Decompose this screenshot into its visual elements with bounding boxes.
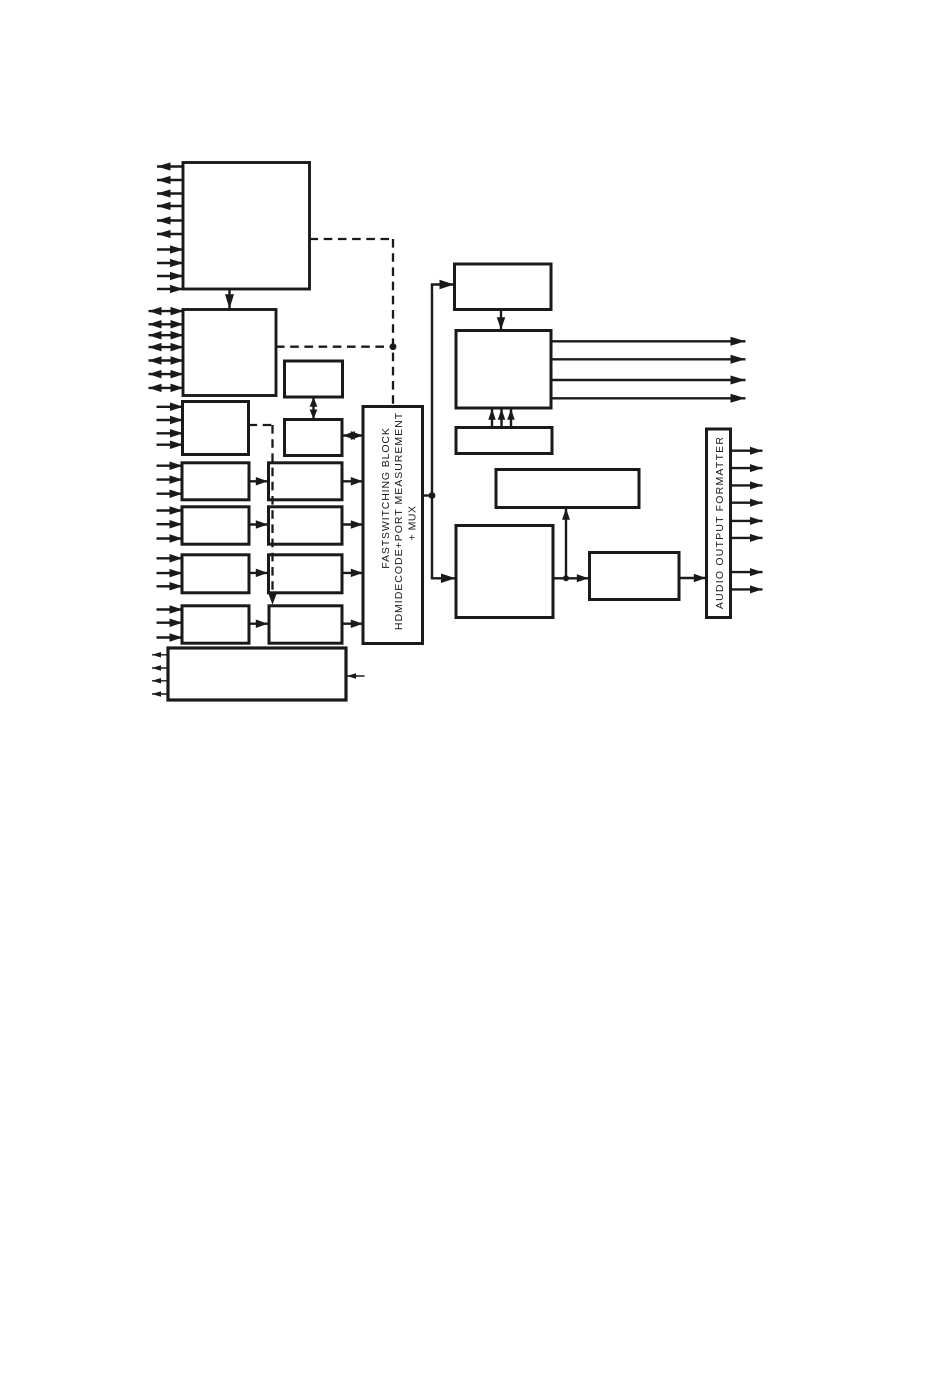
- wire AOF output arrow 5: [731, 517, 763, 525]
- wire B2 bidirectional port arrow 2: [149, 320, 184, 329]
- wire dashed B1 to FS vertical segment: [392, 239, 394, 406]
- wire trunk vertical: [431, 285, 433, 579]
- wire B2 bidirectional port arrow 4: [149, 343, 184, 352]
- wire B4 input port arrow 4: [157, 440, 184, 449]
- wire row5 input port arrow 1: [157, 605, 183, 614]
- wire C to B up arrow 3: [507, 409, 515, 427]
- svg-text:+ MUX: + MUX: [407, 506, 419, 541]
- block B4 control block: [183, 402, 249, 455]
- wire WIDE output small arrow 4: [152, 691, 169, 697]
- wire junction up into D arrow: [562, 508, 570, 578]
- block C small wide block under B: [456, 428, 552, 454]
- wire row5 input port arrow 2: [157, 618, 183, 627]
- block B3a small control block: [285, 361, 343, 397]
- wire B long output arrow 1: [551, 337, 746, 346]
- wire E to F arrow: [553, 574, 589, 582]
- block R4R hdmi receiver row4 right: [269, 555, 343, 593]
- wire row3 input port arrow 1: [157, 506, 183, 515]
- wire row4 to fastswitching block arrow: [342, 569, 363, 578]
- wire dashed B2 branch horizontal: [276, 346, 390, 348]
- wire WIDE output small arrow 2: [152, 665, 169, 671]
- wire AOF output arrow 4: [731, 499, 763, 507]
- wire B1 input port arrow 4 (points right): [157, 285, 184, 293]
- block R2R hdmi receiver row2 right: [269, 463, 343, 500]
- node junction dot on trunk: [429, 492, 436, 499]
- wire B1 output port arrow 5 (points left): [157, 216, 184, 224]
- wire F to AOF arrow: [679, 574, 706, 583]
- wire A to B down arrow: [497, 310, 506, 330]
- block R3R hdmi receiver row3 right: [269, 507, 343, 544]
- wire B3b to fastswitching double arrow: [343, 431, 363, 440]
- wire row4 input port arrow 2: [157, 569, 183, 578]
- block B video output block: [456, 331, 551, 409]
- wire B1 output port arrow 2 (points left): [157, 176, 184, 184]
- block B1 main tuner input block (top-left): [183, 163, 310, 290]
- block D wide block: [496, 470, 639, 508]
- wire row3 input port arrow 2: [157, 520, 183, 529]
- node dashed junction dot: [390, 343, 397, 350]
- wire B long output arrow 2: [551, 355, 746, 364]
- wire WIDE right input small arrow: [347, 673, 365, 679]
- wire row5 left-to-right block arrow: [250, 619, 268, 628]
- wire B long output arrow 3: [551, 376, 746, 385]
- block R4L hdmi input stage row4 left: [182, 555, 249, 593]
- wire row4 input port arrow 3: [157, 582, 183, 591]
- wire dashed B4 branch vertical with arrow: [268, 425, 277, 605]
- wire dashed B4 branch horizontal: [249, 424, 273, 426]
- wire B1 input port arrow 2 (points right): [157, 259, 184, 267]
- svg-text:FASTSWITCHING BLOCK: FASTSWITCHING BLOCK: [380, 427, 392, 568]
- wire B2 bidirectional port arrow 3: [149, 331, 184, 340]
- wire B1 input port arrow 3 (points right): [157, 272, 184, 280]
- block R5L hdmi input stage row5 left: [182, 606, 249, 643]
- wire row2 input port arrow 1: [157, 461, 183, 470]
- wire B4 input port arrow 1: [157, 403, 184, 412]
- wire B1 to B2 down arrow: [225, 289, 234, 309]
- wire WIDE output small arrow 3: [152, 678, 169, 684]
- block A upper right small block: [455, 264, 552, 310]
- wire C to B up arrow 1: [488, 409, 496, 427]
- wire AOF output arrow 3: [731, 481, 763, 489]
- wire AOF output arrow 1: [731, 447, 763, 455]
- wire B3a to B3b vertical double arrow: [310, 397, 318, 419]
- wire AOF output arrow 6: [731, 534, 763, 542]
- wire B1 output port arrow 1 (points left): [157, 162, 184, 170]
- wire FS output stub to trunk: [423, 494, 433, 496]
- block F small audio block: [590, 553, 680, 600]
- wire row5 input port arrow 3: [157, 633, 183, 642]
- wire row3 to fastswitching block arrow: [342, 520, 363, 529]
- svg-text:AUDIO OUTPUT FORMATTER: AUDIO OUTPUT FORMATTER: [714, 436, 726, 609]
- wire row3 left-to-right block arrow: [250, 520, 268, 529]
- block B3b small control block lower: [285, 420, 343, 456]
- wire dashed B1 to FS horizontal segment: [310, 238, 394, 240]
- wire row2 to fastswitching block arrow: [342, 477, 363, 486]
- wire B1 output port arrow 6 (points left): [157, 230, 184, 238]
- wire B2 bidirectional port arrow 7: [149, 384, 184, 393]
- wire B4 input port arrow 2: [157, 416, 184, 425]
- wire B2 bidirectional port arrow 6: [149, 370, 184, 379]
- block WIDE bottom wide block: [168, 648, 346, 700]
- wire AOF output arrow 7: [731, 568, 763, 576]
- wire row3 input port arrow 3: [157, 534, 183, 543]
- wire B1 output port arrow 3 (points left): [157, 189, 184, 197]
- wire B4 input port arrow 3: [157, 429, 184, 438]
- wire AOF output arrow 2: [731, 464, 763, 472]
- wire row2 input port arrow 2: [157, 475, 183, 484]
- wire B2 bidirectional port arrow 5: [149, 356, 184, 365]
- block R5R hdmi receiver row5 right: [269, 606, 342, 643]
- block R2L hdmi input stage row2 left: [182, 463, 249, 500]
- wire row2 left-to-right block arrow: [250, 477, 268, 486]
- wire AOF output arrow 8: [731, 585, 763, 593]
- block FS fastswitching block: [363, 407, 423, 644]
- svg-text:HDMIDECODE+PORT MEASUREMENT: HDMIDECODE+PORT MEASUREMENT: [393, 412, 405, 630]
- block AOF audio output formatter: [707, 429, 731, 618]
- wire B1 output port arrow 4 (points left): [157, 202, 184, 210]
- block B2 interface block: [183, 310, 276, 396]
- wire WIDE output small arrow 1: [152, 652, 169, 658]
- wire trunk bottom branch into E: [431, 574, 456, 584]
- node junction dot on E-F wire: [563, 575, 569, 581]
- wire trunk top branch into A: [431, 280, 454, 290]
- wire B long output arrow 4: [551, 394, 746, 403]
- wire row4 left-to-right block arrow: [250, 569, 268, 578]
- wire B2 bidirectional port arrow 1: [149, 307, 184, 316]
- wire B1 input port arrow 1 (points right): [157, 245, 184, 253]
- wire row5 to fastswitching block arrow: [342, 619, 363, 628]
- wire C to B up arrow 2: [498, 409, 506, 427]
- wire row4 input port arrow 1: [157, 554, 183, 563]
- block R3L hdmi input stage row3 left: [182, 507, 249, 544]
- block E audio processing block: [456, 526, 553, 618]
- wire row2 input port arrow 3: [157, 489, 183, 498]
